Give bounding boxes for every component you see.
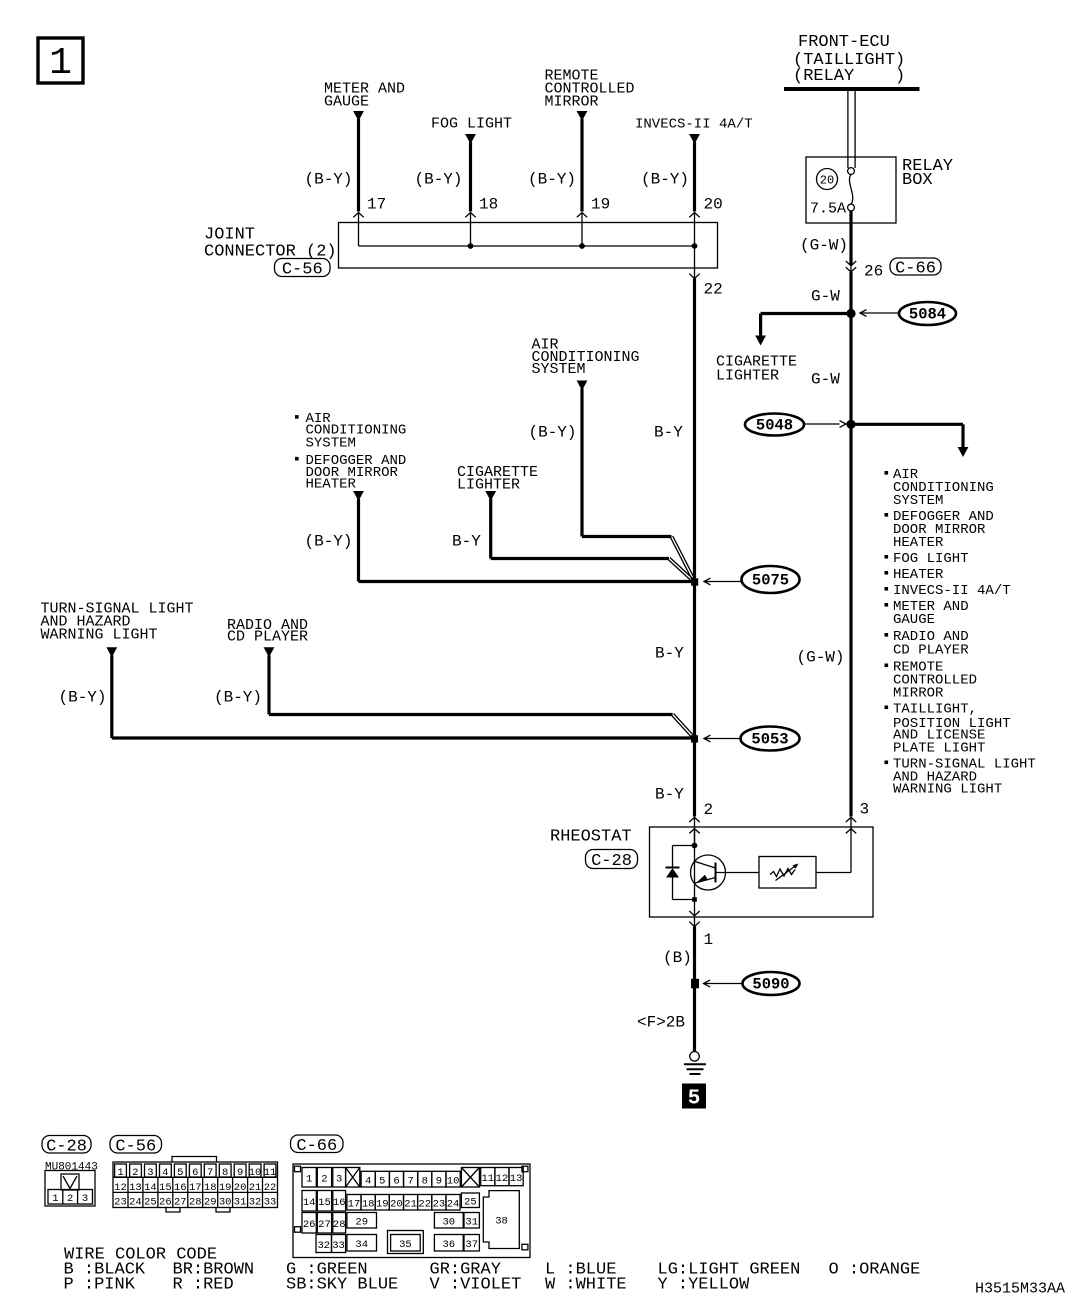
connector chevron pin 20 xyxy=(689,213,699,218)
svg-text:31: 31 xyxy=(234,1197,247,1209)
wire cigarette lighter to node 5075 xyxy=(489,499,492,559)
svg-text:MU801443: MU801443 xyxy=(45,1162,98,1174)
wire resistor to pin 3 xyxy=(816,872,851,874)
svg-text:9: 9 xyxy=(436,1175,442,1187)
svg-text:FOG LIGHT: FOG LIGHT xyxy=(893,551,969,567)
svg-text:CD PLAYER: CD PLAYER xyxy=(227,629,308,646)
svg-text:37: 37 xyxy=(465,1239,478,1251)
svg-text:38: 38 xyxy=(495,1216,508,1228)
rheostat pin 1 xyxy=(689,911,699,916)
transistor base bar xyxy=(715,863,717,883)
rheostat box xyxy=(650,827,874,917)
svg-text:(RELAY ): (RELAY ) xyxy=(793,67,905,86)
node 5048 xyxy=(846,420,855,429)
svg-text:WARNING LIGHT: WARNING LIGHT xyxy=(41,627,158,644)
svg-text:22: 22 xyxy=(264,1182,277,1194)
svg-text:SB:SKY BLUE: SB:SKY BLUE xyxy=(286,1276,398,1295)
svg-text:17: 17 xyxy=(189,1182,202,1194)
variable resistor squiggle xyxy=(770,869,795,877)
connector code C-28 xyxy=(586,850,638,869)
svg-text:32: 32 xyxy=(317,1240,330,1252)
svg-text:34: 34 xyxy=(355,1239,368,1251)
svg-text:27: 27 xyxy=(174,1197,187,1209)
svg-text:(G-W): (G-W) xyxy=(797,649,845,667)
svg-text:28: 28 xyxy=(333,1219,346,1231)
svg-text:23: 23 xyxy=(433,1199,446,1211)
svg-text:(B-Y): (B-Y) xyxy=(415,171,463,189)
svg-text:(B-Y): (B-Y) xyxy=(305,171,353,189)
rheostat internal wire xyxy=(694,829,696,900)
svg-text:INVECS-II 4A/T: INVECS-II 4A/T xyxy=(893,583,1011,599)
arrow to accessory list xyxy=(958,447,969,457)
arrow to cigarette lighter xyxy=(755,336,766,346)
connector C-28 drawing xyxy=(45,1171,95,1207)
svg-text:15: 15 xyxy=(159,1182,172,1194)
svg-text:1: 1 xyxy=(52,1193,58,1205)
svg-text:SYSTEM: SYSTEM xyxy=(306,435,356,451)
svg-text:C-28: C-28 xyxy=(46,1137,87,1156)
svg-text:12: 12 xyxy=(114,1182,127,1194)
fuse number circle 20 xyxy=(817,169,838,190)
svg-text:W :WHITE: W :WHITE xyxy=(545,1276,627,1295)
svg-text:5: 5 xyxy=(688,1088,701,1111)
node 5084 xyxy=(846,309,855,318)
wire (B) to ground xyxy=(693,927,696,1052)
page number box 1 xyxy=(38,38,83,83)
svg-text:21: 21 xyxy=(249,1182,262,1194)
junction dot pin 20 bus xyxy=(692,243,698,249)
junction dot pin 19 bus xyxy=(579,243,585,249)
connector code C-66 xyxy=(890,258,941,275)
svg-text:29: 29 xyxy=(355,1217,368,1229)
arrow from turn-signal xyxy=(106,647,117,657)
arrow from REMOTE CONTROLLED MIRROR xyxy=(577,111,588,121)
node 5053 xyxy=(691,735,698,742)
fuse 7.5A xyxy=(848,168,855,175)
arrow from defogger branch xyxy=(353,491,364,501)
svg-text:O :ORANGE: O :ORANGE xyxy=(829,1261,921,1280)
svg-text:6: 6 xyxy=(393,1175,399,1187)
svg-text:PLATE LIGHT: PLATE LIGHT xyxy=(893,741,985,757)
svg-text:3: 3 xyxy=(82,1193,88,1205)
svg-text:12: 12 xyxy=(496,1173,509,1185)
svg-text:C-56: C-56 xyxy=(115,1137,156,1156)
wire branch to cigarette lighter xyxy=(761,312,851,315)
svg-text:32: 32 xyxy=(249,1197,262,1209)
svg-text:28: 28 xyxy=(189,1197,202,1209)
svg-text:5053: 5053 xyxy=(751,731,788,749)
diode D1 xyxy=(666,867,680,869)
svg-text:31: 31 xyxy=(465,1217,478,1229)
svg-text:22: 22 xyxy=(704,281,723,299)
svg-text:20: 20 xyxy=(704,196,723,214)
svg-text:SYSTEM: SYSTEM xyxy=(893,493,943,509)
svg-text:29: 29 xyxy=(204,1197,217,1209)
wire (B-Y) pin 17 xyxy=(357,119,360,212)
svg-text:2: 2 xyxy=(321,1174,327,1186)
svg-text:1: 1 xyxy=(49,42,72,85)
svg-text:16: 16 xyxy=(174,1182,187,1194)
svg-text:11: 11 xyxy=(481,1173,494,1185)
svg-text:HEATER: HEATER xyxy=(893,535,944,551)
svg-text:(B-Y): (B-Y) xyxy=(305,533,353,551)
arrow from radio xyxy=(264,647,275,657)
svg-text:1: 1 xyxy=(704,931,714,949)
svg-text:(B-Y): (B-Y) xyxy=(214,689,262,707)
arrow from INVECS-II xyxy=(689,134,700,144)
relay box xyxy=(806,157,896,223)
svg-text:20: 20 xyxy=(820,174,834,188)
svg-text:14: 14 xyxy=(303,1197,316,1209)
joint connector box C-56 xyxy=(339,223,718,269)
svg-text:BOX: BOX xyxy=(902,171,933,190)
svg-text:(G-W): (G-W) xyxy=(800,237,848,255)
svg-text:7.5A: 7.5A xyxy=(810,201,846,218)
junction dot pin 18 bus xyxy=(468,243,474,249)
svg-text:3: 3 xyxy=(336,1174,342,1186)
svg-text:B-Y: B-Y xyxy=(655,786,684,804)
svg-text:19: 19 xyxy=(591,196,610,214)
svg-text:5048: 5048 xyxy=(756,417,793,435)
svg-text:10: 10 xyxy=(447,1175,460,1187)
connector C-56 drawing xyxy=(172,1157,217,1163)
svg-text:INVECS-II 4A/T: INVECS-II 4A/T xyxy=(635,117,753,133)
svg-text:21: 21 xyxy=(404,1199,417,1211)
svg-text:(B-Y): (B-Y) xyxy=(529,424,577,442)
wire B-Y main bus xyxy=(693,279,696,817)
node 5075 xyxy=(691,578,698,585)
svg-text:27: 27 xyxy=(318,1219,331,1231)
svg-text:MIRROR: MIRROR xyxy=(545,94,599,111)
load list (left) xyxy=(295,415,299,419)
arrow from FOG LIGHT xyxy=(465,134,476,144)
svg-text:FOG LIGHT: FOG LIGHT xyxy=(431,116,512,133)
svg-text:B-Y: B-Y xyxy=(452,533,481,551)
double wire from front-ecu xyxy=(847,91,849,168)
wire AC system to node 5075 xyxy=(580,389,583,537)
wire (B-Y) pin 18 xyxy=(469,142,472,212)
wire G-W main bus xyxy=(849,211,852,266)
connector code C-56 xyxy=(275,259,331,277)
variable resistor box xyxy=(759,857,816,889)
svg-text:23: 23 xyxy=(114,1197,127,1209)
svg-text:17: 17 xyxy=(348,1199,361,1211)
junction dot transistor top xyxy=(692,843,698,849)
svg-text:B-Y: B-Y xyxy=(654,424,683,442)
transistor Q1 circle xyxy=(691,855,726,890)
svg-text:30: 30 xyxy=(219,1197,232,1209)
svg-text:GAUGE: GAUGE xyxy=(893,612,935,628)
svg-text:2: 2 xyxy=(704,801,714,819)
svg-text:MIRROR: MIRROR xyxy=(893,686,944,702)
svg-text:(B-Y): (B-Y) xyxy=(528,171,576,189)
svg-text:FRONT-ECU: FRONT-ECU xyxy=(798,33,890,52)
svg-text:R :RED: R :RED xyxy=(173,1276,234,1295)
svg-text:<F>2B: <F>2B xyxy=(637,1014,685,1032)
svg-text:H3515M33AA: H3515M33AA xyxy=(975,1281,1065,1298)
svg-text:G-W: G-W xyxy=(811,371,840,389)
arrow from cigarette lighter xyxy=(485,491,496,501)
svg-text:15: 15 xyxy=(318,1197,331,1209)
svg-text:24: 24 xyxy=(129,1197,142,1209)
svg-text:20: 20 xyxy=(390,1199,403,1211)
svg-text:25: 25 xyxy=(464,1197,477,1209)
wire pin 22 exit xyxy=(694,246,696,279)
svg-text:13: 13 xyxy=(510,1173,523,1185)
ground number 5 xyxy=(682,1084,706,1109)
svg-text:33: 33 xyxy=(332,1240,345,1252)
svg-text:P :PINK: P :PINK xyxy=(64,1276,136,1295)
svg-text:30: 30 xyxy=(442,1217,455,1229)
svg-text:18: 18 xyxy=(362,1199,375,1211)
wire (B-Y) pin 20 xyxy=(693,142,696,212)
connector code C-56 (bottom) xyxy=(110,1136,162,1154)
svg-text:2: 2 xyxy=(67,1193,73,1205)
svg-text:5084: 5084 xyxy=(909,306,946,324)
joint connector internal bus xyxy=(359,245,695,247)
svg-text:19: 19 xyxy=(219,1182,232,1194)
svg-text:7: 7 xyxy=(407,1175,413,1187)
connector chevron pin 19 xyxy=(577,213,587,218)
transistor emitter arrow xyxy=(697,875,709,883)
svg-text:(B-Y): (B-Y) xyxy=(641,171,689,189)
node 5090 xyxy=(691,979,699,989)
svg-text:14: 14 xyxy=(144,1182,157,1194)
connector code C-28 (bottom) xyxy=(42,1136,91,1154)
ground symbol xyxy=(690,1052,700,1062)
wire G-W bus lower xyxy=(849,272,852,817)
svg-text:CD PLAYER: CD PLAYER xyxy=(893,643,969,659)
svg-text:5075: 5075 xyxy=(752,572,789,590)
svg-text:LIGHTER: LIGHTER xyxy=(716,368,779,385)
connector code C-66 (bottom) xyxy=(291,1135,344,1153)
svg-text:26: 26 xyxy=(159,1197,172,1209)
connector chevron pin 22 xyxy=(689,274,699,279)
svg-text:V :VIOLET: V :VIOLET xyxy=(430,1276,522,1295)
svg-text:C-66: C-66 xyxy=(296,1137,337,1156)
diode branch wires xyxy=(673,845,695,847)
svg-text:33: 33 xyxy=(264,1197,277,1209)
svg-text:HEATER: HEATER xyxy=(893,567,944,583)
svg-text:G-W: G-W xyxy=(811,288,840,306)
svg-text:4: 4 xyxy=(365,1175,371,1187)
svg-text:B-Y: B-Y xyxy=(655,645,684,663)
svg-text:18: 18 xyxy=(479,196,498,214)
wire radio to node 5053 xyxy=(267,655,270,714)
connector chevron pin 18 xyxy=(465,213,475,218)
svg-text:35: 35 xyxy=(399,1239,412,1251)
svg-text:(B): (B) xyxy=(663,949,692,967)
svg-text:26: 26 xyxy=(303,1219,316,1231)
svg-text:17: 17 xyxy=(367,196,386,214)
svg-text:Y :YELLOW: Y :YELLOW xyxy=(658,1276,751,1295)
svg-text:(B-Y): (B-Y) xyxy=(59,689,107,707)
svg-text:5: 5 xyxy=(379,1175,385,1187)
svg-text:13: 13 xyxy=(129,1182,142,1194)
svg-text:SYSTEM: SYSTEM xyxy=(532,361,586,378)
svg-text:GAUGE: GAUGE xyxy=(324,94,369,111)
svg-text:C-56: C-56 xyxy=(282,261,323,280)
svg-text:LIGHTER: LIGHTER xyxy=(457,477,520,494)
connector chevrons C-66 pin 26 xyxy=(846,261,856,266)
svg-text:C-66: C-66 xyxy=(895,260,936,279)
arrow from METER AND GAUGE xyxy=(353,111,364,121)
svg-text:WARNING LIGHT: WARNING LIGHT xyxy=(893,782,1002,798)
FRONT-ECU bus bar xyxy=(784,87,920,91)
svg-text:RHEOSTAT: RHEOSTAT xyxy=(550,828,632,847)
wire defogger branch to node 5075 xyxy=(357,499,360,582)
svg-text:C-28: C-28 xyxy=(591,852,632,871)
svg-text:5090: 5090 xyxy=(752,976,789,994)
load list (right) xyxy=(885,471,889,475)
connector chevron pin 17 xyxy=(353,213,363,218)
svg-text:8: 8 xyxy=(422,1175,428,1187)
svg-text:24: 24 xyxy=(447,1199,460,1211)
svg-text:25: 25 xyxy=(144,1197,157,1209)
transistor emitter xyxy=(695,878,716,884)
svg-text:19: 19 xyxy=(376,1199,389,1211)
svg-text:18: 18 xyxy=(204,1182,217,1194)
svg-text:36: 36 xyxy=(442,1239,455,1251)
svg-text:20: 20 xyxy=(234,1182,247,1194)
wire branch to accessory list xyxy=(851,423,963,426)
arrow from AC system xyxy=(577,381,588,391)
wire (B-Y) pin 19 xyxy=(580,119,583,212)
wire turn-signal to node 5053 xyxy=(110,655,113,738)
svg-text:16: 16 xyxy=(333,1197,346,1209)
svg-text:HEATER: HEATER xyxy=(306,476,357,492)
svg-text:1: 1 xyxy=(306,1174,312,1186)
svg-text:26: 26 xyxy=(864,263,883,281)
svg-text:3: 3 xyxy=(860,801,870,819)
transistor collector xyxy=(695,862,716,869)
transistor base lead xyxy=(716,872,760,874)
svg-text:22: 22 xyxy=(418,1199,431,1211)
connector C-66 drawing xyxy=(293,1164,530,1258)
junction square diode bottom xyxy=(692,897,697,902)
